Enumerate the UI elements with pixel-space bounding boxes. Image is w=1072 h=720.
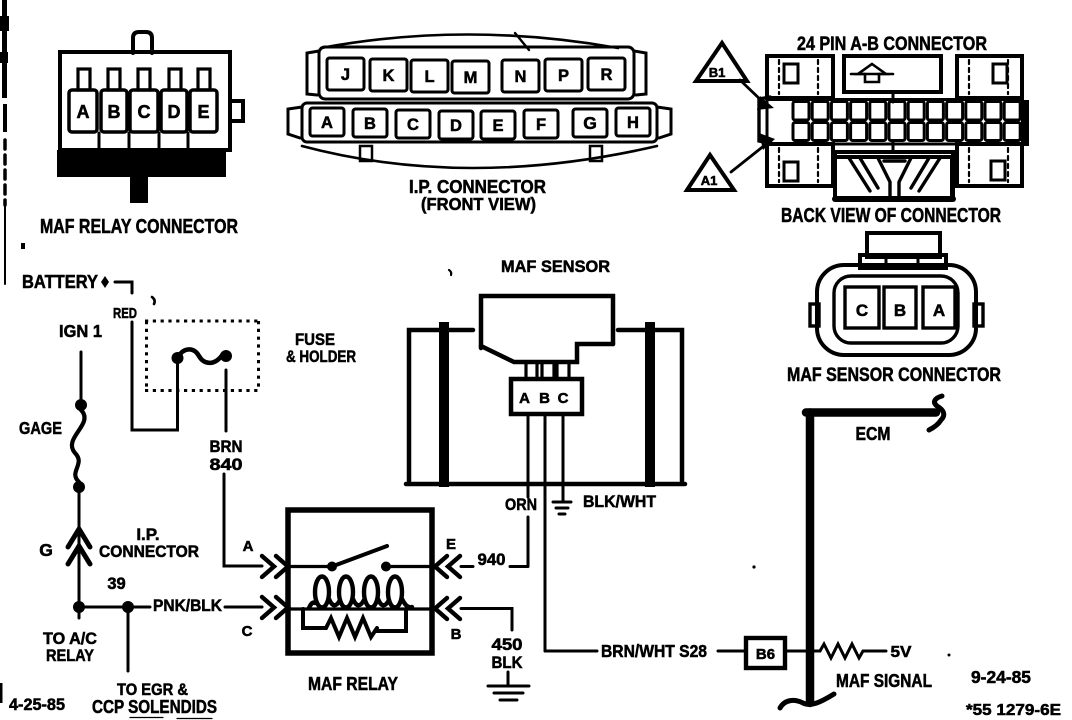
svg-text:C: C	[558, 390, 569, 407]
svg-text:R: R	[601, 66, 613, 84]
svg-text:39: 39	[107, 575, 125, 593]
svg-text:M: M	[464, 69, 478, 87]
svg-text:BATTERY: BATTERY	[22, 271, 99, 292]
svg-text:A: A	[321, 114, 333, 132]
svg-text:BRN: BRN	[210, 437, 243, 456]
svg-text:N: N	[515, 68, 527, 86]
svg-text:B: B	[451, 626, 462, 643]
svg-text:K: K	[383, 67, 395, 85]
svg-text:(FRONT VIEW): (FRONT VIEW)	[421, 194, 536, 214]
svg-text:D: D	[168, 102, 181, 122]
svg-text:BACK VIEW OF CONNECTOR: BACK VIEW OF CONNECTOR	[781, 205, 1001, 227]
svg-text:840: 840	[210, 455, 243, 474]
svg-text:ECM: ECM	[856, 424, 891, 444]
svg-text:C: C	[242, 623, 253, 640]
svg-text:E: E	[492, 117, 503, 135]
svg-text:BLK: BLK	[492, 653, 524, 672]
svg-text:P: P	[558, 67, 569, 85]
svg-text:BRN/WHT S28: BRN/WHT S28	[601, 641, 707, 661]
svg-text:E: E	[446, 536, 456, 553]
svg-text:J: J	[341, 66, 350, 84]
svg-text:A: A	[519, 390, 530, 407]
svg-text:B: B	[539, 390, 550, 407]
svg-text:B6: B6	[756, 646, 775, 663]
svg-text:C: C	[856, 301, 868, 320]
svg-text:MAF SIGNAL: MAF SIGNAL	[836, 671, 932, 691]
svg-text:E: E	[197, 102, 209, 122]
svg-text:5V: 5V	[891, 644, 912, 661]
svg-text:G: G	[39, 540, 53, 560]
svg-text:G: G	[583, 113, 597, 133]
svg-text:B: B	[108, 102, 121, 122]
svg-text:A: A	[77, 102, 90, 122]
svg-text:PNK/BLK: PNK/BLK	[153, 596, 223, 615]
svg-text:CCP SOLENDIDS: CCP SOLENDIDS	[92, 697, 217, 717]
svg-text:RELAY: RELAY	[46, 646, 95, 665]
svg-text:B1: B1	[709, 65, 726, 80]
svg-text:B: B	[364, 115, 376, 133]
svg-text:& HOLDER: & HOLDER	[286, 347, 356, 366]
svg-text:GAGE: GAGE	[19, 418, 62, 438]
svg-text:D: D	[450, 117, 462, 135]
svg-text:A1: A1	[701, 173, 718, 188]
svg-text:CONNECTOR: CONNECTOR	[99, 542, 199, 561]
svg-text:MAF SENSOR CONNECTOR: MAF SENSOR CONNECTOR	[787, 365, 1001, 386]
svg-text:940: 940	[478, 550, 506, 569]
svg-text:ORN: ORN	[505, 495, 537, 514]
svg-text:A: A	[243, 538, 254, 555]
svg-text:9-24-85: 9-24-85	[971, 667, 1031, 687]
svg-text:24 PIN A-B CONNECTOR: 24 PIN A-B CONNECTOR	[797, 34, 987, 55]
svg-text:C: C	[407, 116, 419, 134]
svg-text:MAF RELAY CONNECTOR: MAF RELAY CONNECTOR	[40, 216, 238, 238]
svg-text:F: F	[536, 116, 546, 134]
svg-text:IGN 1: IGN 1	[59, 321, 102, 341]
svg-text:A: A	[933, 301, 945, 320]
svg-text:RED: RED	[113, 305, 137, 322]
svg-text:B: B	[894, 301, 906, 320]
svg-text:4-25-85: 4-25-85	[9, 695, 65, 714]
svg-text:BLK/WHT: BLK/WHT	[583, 492, 657, 511]
svg-text:*55 1279-6E: *55 1279-6E	[966, 702, 1061, 719]
svg-text:MAF RELAY: MAF RELAY	[308, 673, 399, 694]
svg-text:C: C	[138, 102, 151, 122]
svg-text:L: L	[424, 68, 434, 86]
svg-text:H: H	[627, 114, 639, 132]
svg-text:MAF SENSOR: MAF SENSOR	[501, 257, 610, 276]
svg-text:450: 450	[492, 635, 523, 654]
